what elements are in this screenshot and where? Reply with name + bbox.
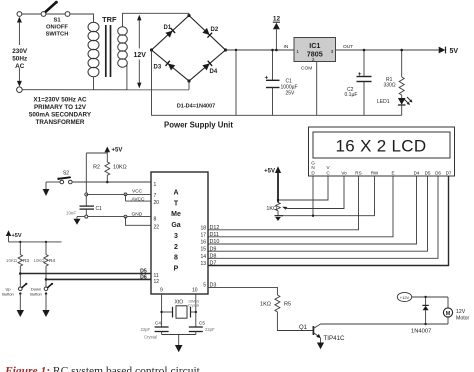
svg-text:10nF: 10nF	[66, 211, 76, 216]
wire pin 9 column	[160, 294, 162, 327]
caption Figure 1	[4, 366, 201, 372]
svg-text:3: 3	[174, 233, 178, 240]
12 voltage marker	[273, 16, 281, 52]
svg-text:Button: Button	[2, 292, 14, 297]
node D7	[210, 261, 217, 267]
pin 5	[203, 283, 206, 289]
svg-text:+12V: +12V	[400, 295, 410, 300]
svg-text:Figure 1: RC system based cont: Figure 1: RC system based control circui…	[4, 366, 201, 372]
+5V marker at R2	[86, 147, 122, 154]
ground at up button	[17, 294, 24, 317]
svg-text:D3: D3	[154, 65, 162, 71]
svg-text:50Hz: 50Hz	[12, 56, 27, 63]
svg-text:1: 1	[154, 182, 157, 188]
svg-text:C4: C4	[155, 321, 161, 326]
svg-text:E: E	[391, 170, 394, 175]
pin 8	[154, 217, 157, 223]
ground at Q1 emitter	[317, 338, 324, 349]
diode 1N4007 flyback	[411, 297, 431, 335]
pin 22	[154, 225, 160, 231]
svg-text:D4: D4	[414, 170, 420, 175]
wire Vo to pot wiper	[289, 176, 345, 209]
LCD pin GND	[311, 160, 315, 175]
pin 1	[154, 182, 157, 188]
svg-text:R3: R3	[23, 258, 29, 263]
svg-text:AVCC: AVCC	[132, 196, 146, 202]
svg-text:16: 16	[200, 240, 206, 246]
svg-text:10KΩ: 10KΩ	[113, 165, 127, 171]
switch S1 ON/OFF	[22, 1, 70, 38]
+5V marker at buttons	[6, 230, 62, 242]
wire D7 to D7	[208, 176, 449, 266]
svg-text:+: +	[358, 71, 362, 78]
svg-text:17: 17	[200, 232, 206, 238]
svg-text:XtO: XtO	[175, 300, 184, 306]
ground at pot	[275, 211, 284, 221]
pin 17	[200, 232, 206, 238]
AC source 230V 50Hz	[12, 12, 28, 93]
svg-text:Q1: Q1	[299, 325, 308, 331]
wire AC bottom rail	[22, 89, 189, 91]
svg-text:C1: C1	[96, 206, 103, 212]
svg-text:D1-D4=1N4007: D1-D4=1N4007	[177, 104, 215, 110]
ground at down button	[42, 294, 49, 317]
pin 18	[200, 225, 206, 231]
node D12	[210, 225, 220, 231]
svg-text:D6: D6	[435, 170, 441, 175]
wire R5 to Q1 base	[277, 312, 312, 331]
svg-text:22: 22	[154, 225, 160, 231]
node D8	[210, 254, 217, 260]
LCD pin E	[391, 170, 394, 175]
svg-text:TIP41C: TIP41C	[324, 335, 346, 342]
svg-text:COM: COM	[301, 66, 312, 72]
wire pin 10 column	[195, 294, 197, 327]
svg-text:1KΩ: 1KΩ	[260, 302, 271, 308]
svg-text:D7: D7	[210, 261, 217, 267]
svg-text:3: 3	[331, 49, 334, 55]
LCD pin VCC	[326, 165, 330, 175]
LCD pin RW	[371, 170, 379, 175]
svg-text:R4: R4	[49, 258, 55, 263]
svg-text:P: P	[174, 266, 179, 273]
down button switch	[30, 283, 53, 297]
svg-text:D5: D5	[425, 170, 431, 175]
pin 11	[154, 273, 159, 279]
svg-text:9: 9	[160, 288, 163, 294]
svg-text:AC: AC	[15, 63, 25, 70]
svg-text:D2: D2	[211, 27, 219, 33]
svg-text:S1: S1	[53, 18, 61, 24]
svg-text:1: 1	[296, 49, 299, 55]
Power Supply Unit title	[164, 121, 233, 130]
diode D1	[164, 25, 176, 38]
resistor R5 1K	[260, 295, 291, 312]
svg-text:1KΩ: 1KΩ	[266, 206, 277, 212]
node D3 pin 5	[210, 282, 217, 288]
svg-text:Ga: Ga	[171, 222, 180, 229]
svg-text:C5: C5	[199, 321, 205, 326]
LCD pin D6	[435, 170, 441, 175]
svg-text:LED1: LED1	[377, 99, 390, 105]
preset 1K contrast pot	[266, 202, 288, 212]
svg-text:22pF: 22pF	[205, 327, 215, 332]
pin 14	[200, 254, 206, 260]
svg-text:TRANSFORMER: TRANSFORMER	[36, 119, 85, 126]
svg-text:R5: R5	[284, 302, 291, 308]
capacitor C4 22pF	[141, 321, 169, 340]
svg-text:+5V: +5V	[12, 233, 22, 239]
svg-text:15: 15	[200, 247, 206, 253]
node D5	[140, 269, 147, 275]
wire D6 to D8	[208, 176, 438, 258]
svg-text:D12: D12	[210, 225, 220, 231]
svg-text:230V: 230V	[12, 48, 28, 55]
svg-text:7: 7	[154, 193, 157, 199]
pin 9	[160, 288, 163, 294]
capacitor C1 10nF at reset	[66, 206, 102, 217]
wire pin 11 line	[20, 273, 151, 275]
bridge rectifier diamond	[150, 13, 227, 90]
svg-text:8: 8	[174, 255, 178, 262]
svg-text:R2: R2	[93, 165, 100, 171]
svg-text:Power Supply Unit: Power Supply Unit	[164, 121, 233, 130]
resistor R2 10K	[93, 151, 127, 183]
svg-text:D6: D6	[140, 275, 147, 281]
svg-text:13: 13	[200, 261, 206, 267]
svg-text:+5V: +5V	[264, 169, 275, 175]
microcontroller U1 ATmega328P	[151, 172, 208, 294]
svg-text:A: A	[173, 190, 178, 197]
pin 16	[200, 240, 206, 246]
svg-text:ON/OFF: ON/OFF	[46, 25, 68, 31]
5V output marker	[439, 47, 459, 55]
ground at C1	[74, 217, 81, 225]
wire E to D11	[208, 176, 393, 237]
svg-text:IN: IN	[284, 44, 289, 50]
svg-text:PRIMARY TO 12V: PRIMARY TO 12V	[34, 104, 87, 111]
svg-text:16 X 2 LCD: 16 X 2 LCD	[336, 137, 427, 156]
svg-text:12V: 12V	[456, 309, 466, 315]
pin 20	[154, 200, 160, 206]
up button switch	[2, 283, 27, 297]
transformer TRF X1	[88, 13, 189, 90]
transistor Q1 TIP41C	[299, 324, 345, 342]
LCD module 16x2	[309, 127, 455, 176]
svg-text:D11: D11	[210, 232, 220, 238]
voltage regulator IC1 7805	[284, 38, 354, 116]
svg-text:8: 8	[154, 217, 157, 223]
node D9	[210, 246, 217, 252]
node D6	[140, 275, 147, 281]
LCD pin Vo	[341, 170, 347, 175]
svg-text:12V: 12V	[133, 52, 146, 59]
wire +5V column to VCC	[85, 153, 88, 206]
svg-text:2: 2	[174, 244, 178, 251]
wire reset line to pin 1	[72, 181, 151, 183]
svg-text:14: 14	[200, 254, 206, 260]
pin 12	[154, 279, 160, 285]
pin 13	[200, 261, 206, 267]
diode D3	[154, 61, 176, 71]
svg-text:VCC: VCC	[132, 189, 143, 195]
wire D4 to D10	[208, 176, 417, 244]
svg-text:330Ω: 330Ω	[384, 83, 396, 89]
LCD pin D5	[425, 170, 431, 175]
ground at S2	[43, 182, 60, 196]
svg-text:Button: Button	[30, 292, 42, 297]
wire Q1 collector rail	[321, 323, 449, 325]
svg-text:500mA SECONDARY: 500mA SECONDARY	[29, 112, 92, 119]
wire VCC to +5V	[277, 176, 328, 201]
capacitor C1 1000uF 25V	[265, 49, 298, 116]
LCD pin D7	[446, 170, 452, 175]
pin 10	[192, 288, 198, 294]
svg-text:20: 20	[154, 200, 160, 206]
resistor R3 10K	[6, 241, 29, 287]
diode D4	[202, 61, 217, 75]
capacitor C5 22pF	[189, 321, 215, 335]
svg-text:D10: D10	[210, 239, 220, 245]
pin 15	[200, 247, 206, 253]
svg-text:SWITCH: SWITCH	[46, 32, 69, 38]
switch S2 reset	[57, 171, 72, 184]
svg-text:Vo: Vo	[341, 170, 347, 175]
svg-text:Crystal: Crystal	[188, 304, 199, 308]
svg-text:+: +	[265, 75, 269, 82]
svg-text:S2: S2	[63, 171, 69, 177]
X1 transformer note	[29, 97, 92, 127]
12V measure arrow	[133, 15, 146, 89]
output wire 5V rail	[336, 49, 439, 51]
crystal XTO 16MHz	[162, 300, 200, 319]
LED1	[377, 95, 412, 115]
node GND pin 8	[77, 212, 151, 226]
svg-text:RS: RS	[355, 170, 361, 175]
+12V supply oval	[397, 292, 448, 301]
svg-text:X1=230V 50Hz AC: X1=230V 50Hz AC	[33, 97, 87, 104]
svg-text:+5V: +5V	[112, 148, 123, 154]
node D10	[210, 239, 220, 245]
node AVCC pin 20	[126, 194, 152, 202]
wire GND and RW tied to ground	[283, 176, 375, 217]
svg-text:10: 10	[192, 288, 198, 294]
wire pin 12 line	[46, 278, 151, 280]
ground at crystal	[162, 335, 196, 353]
svg-text:5V: 5V	[450, 48, 459, 55]
pin 7	[154, 193, 157, 199]
svg-text:1N4007: 1N4007	[411, 329, 431, 335]
svg-text:22pF: 22pF	[141, 327, 151, 332]
svg-text:12: 12	[273, 16, 281, 23]
svg-text:RW: RW	[371, 170, 379, 175]
svg-text:5: 5	[203, 283, 206, 289]
motor M 12V	[443, 297, 469, 324]
LCD pin D4	[414, 170, 420, 175]
svg-text:Me: Me	[171, 211, 181, 218]
svg-text:M: M	[446, 311, 451, 317]
svg-text:D1: D1	[164, 25, 172, 31]
wire switch to primary	[70, 14, 94, 22]
node VCC pin 7	[86, 189, 151, 196]
svg-text:12: 12	[154, 279, 160, 285]
svg-text:GND: GND	[132, 212, 143, 218]
ground rail of power supply with frame	[152, 49, 402, 116]
svg-text:Motor: Motor	[456, 316, 470, 322]
svg-text:T: T	[174, 200, 179, 207]
LCD pin RS	[355, 170, 361, 175]
svg-text:D7: D7	[446, 170, 452, 175]
+5V marker at LCD contrast	[264, 166, 281, 202]
resistor R1 330ohm	[384, 49, 405, 95]
capacitor C2 0.1uF	[345, 49, 372, 116]
svg-text:Crystal: Crystal	[144, 335, 157, 340]
diode D2	[202, 27, 218, 38]
main DC wire bridge to regulator	[226, 49, 295, 51]
svg-text:18: 18	[200, 225, 206, 231]
svg-text:7805: 7805	[307, 50, 323, 59]
svg-text:25V: 25V	[286, 91, 296, 97]
svg-text:D8: D8	[210, 254, 217, 260]
wire D5 to D9	[208, 176, 428, 251]
node D11	[210, 232, 220, 238]
svg-text:TRF: TRF	[102, 15, 117, 24]
svg-text:10KΩ: 10KΩ	[6, 258, 18, 263]
svg-text:D9: D9	[210, 246, 217, 252]
wire RS to D12	[208, 176, 359, 230]
wire D3 to R5	[208, 287, 277, 295]
svg-text:D4: D4	[210, 69, 218, 75]
svg-text:0.1µF: 0.1µF	[345, 92, 358, 98]
svg-text:OUT: OUT	[343, 44, 353, 50]
svg-text:2: 2	[312, 57, 315, 63]
svg-text:10KΩ: 10KΩ	[34, 258, 46, 263]
resistor R4 10K	[34, 241, 56, 287]
